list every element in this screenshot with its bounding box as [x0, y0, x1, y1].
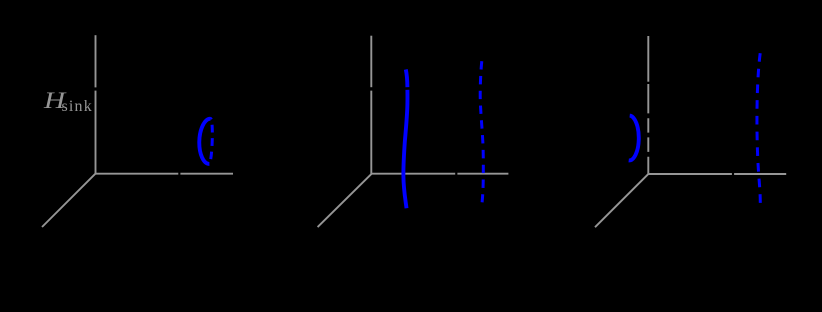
vortex loop (a): dashed back arc	[209, 119, 212, 164]
wire: panel c vertical axis solid top	[647, 36, 649, 82]
wire: panel a vertical axis upper	[95, 35, 97, 87]
wire: panel c diagonal axis	[595, 174, 649, 227]
wire: panel b vertical axis upper	[370, 36, 372, 87]
wire: panel b horizontal axis left	[371, 173, 455, 175]
panel (a) axes	[42, 35, 786, 227]
wire: panel a vertical axis lower	[95, 91, 97, 174]
wire: panel a horizontal axis left	[96, 173, 179, 175]
vortex loop (a): solid front arc	[199, 119, 210, 164]
wire: panel b vertical axis lower	[370, 91, 372, 174]
wire: panel c vertical axis dashed part	[647, 84, 649, 174]
string (b): solid front string main	[403, 90, 407, 208]
string (c): solid front arc	[629, 116, 639, 161]
wire: panel b diagonal axis	[318, 174, 372, 228]
string (c): dashed back string	[757, 53, 760, 203]
string (b): solid front string upper tip	[406, 69, 408, 87]
wire: panel a diagonal axis	[42, 174, 96, 227]
wire: panel a horizontal axis right	[180, 173, 233, 175]
wire: panel c horizontal axis left	[649, 173, 732, 175]
string (b): dashed back string	[480, 61, 483, 202]
wire: panel c horizontal axis right	[734, 173, 786, 175]
wire: panel b horizontal axis right	[457, 173, 508, 175]
label H_sink	[44, 88, 93, 116]
